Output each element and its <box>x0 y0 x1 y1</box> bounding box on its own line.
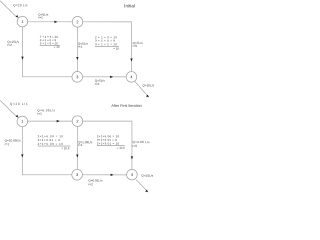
svg-text:3: 3 <box>76 75 78 79</box>
svg-text:4: 4 <box>130 75 132 79</box>
svg-text:r=5: r=5 <box>133 44 138 48</box>
svg-text:r=2: r=2 <box>95 82 100 86</box>
svg-text:r=5: r=5 <box>133 144 138 148</box>
svg-text:r=1: r=1 <box>78 143 83 147</box>
svg-text:r=2: r=2 <box>7 43 12 47</box>
svg-text:3: 3 <box>76 173 78 177</box>
svg-text:= 10.9: = 10.9 <box>61 146 70 150</box>
svg-text:Initial: Initial <box>124 3 135 8</box>
svg-text:= 10.6: = 10.6 <box>117 146 126 150</box>
svg-text:1: 1 <box>21 120 23 124</box>
svg-text:r=1: r=1 <box>5 142 10 146</box>
svg-text:Q=20 L/s: Q=20 L/s <box>10 102 28 106</box>
svg-text:1: 1 <box>21 20 23 24</box>
svg-text:Q=20 L/s: Q=20 L/s <box>13 3 28 7</box>
svg-text:2: 2 <box>76 120 78 124</box>
svg-text:2+1+6.09 = 10: 2+1+6.09 = 10 <box>38 142 64 146</box>
svg-text:4: 4 <box>131 173 133 177</box>
svg-text:Q=10L/s: Q=10L/s <box>142 83 154 87</box>
svg-text:Q=10L/s: Q=10L/s <box>141 174 153 178</box>
svg-text:r=1: r=1 <box>78 45 83 49</box>
svg-text:r=1: r=1 <box>38 16 43 20</box>
svg-text:r=2: r=2 <box>88 182 93 186</box>
svg-text:= 10: = 10 <box>113 46 119 50</box>
svg-text:r=1: r=1 <box>37 112 42 116</box>
svg-text:2: 2 <box>76 20 78 24</box>
svg-text:After First Iteration: After First Iteration <box>111 104 141 108</box>
